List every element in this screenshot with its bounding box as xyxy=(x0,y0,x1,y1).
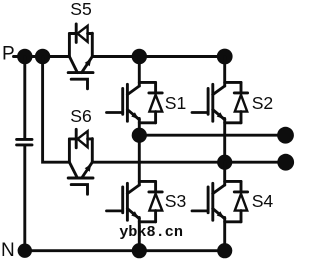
S6 diode loop right vertical xyxy=(91,139,94,163)
junction dot S1 collector xyxy=(132,49,147,64)
S2 diode bottom lead xyxy=(240,112,243,123)
S1 bottom wire from diode xyxy=(139,121,155,124)
S3 gate lead xyxy=(107,209,123,212)
S5 gate bar and lead xyxy=(71,79,87,89)
S6 emitter diagonal xyxy=(82,162,93,178)
wire upper output rail xyxy=(139,134,285,137)
S3 diode cathode bar xyxy=(149,190,162,193)
IGBT S2 xyxy=(192,57,248,163)
IGBT S6 xyxy=(68,129,93,194)
svg-text:S2: S2 xyxy=(252,93,274,113)
S2 top wire to diode xyxy=(225,81,241,84)
svg-text:S5: S5 xyxy=(70,0,92,19)
junction dot S3 emitter N xyxy=(132,243,147,258)
S5 diode loop left vertical xyxy=(68,34,71,57)
S1 diode cathode bar xyxy=(149,91,162,94)
wire S2 leg to S4 xyxy=(223,162,226,185)
S4 emitter diagonal xyxy=(213,209,225,219)
wire P bus: dot2 to S5 left xyxy=(43,55,70,58)
S4 top wire to diode xyxy=(225,180,241,183)
S1 gate bar xyxy=(121,89,124,115)
S6 diode loop left vertical xyxy=(68,139,71,162)
S6 diode triangle xyxy=(78,131,88,147)
S4 gate lead xyxy=(192,209,208,212)
IGBT S3 xyxy=(107,181,163,250)
wire C1 bottom lead xyxy=(23,146,26,251)
junction dot P-C1 xyxy=(17,49,32,64)
S4 emitter lead xyxy=(223,218,226,251)
junction dot P-S6 branch xyxy=(35,49,50,64)
S6 channel bar xyxy=(68,177,93,180)
terminal dot upper output xyxy=(277,127,294,144)
IGBT S5 xyxy=(68,24,93,89)
wire S1 leg to S3 xyxy=(138,135,141,185)
S2 gate lead xyxy=(192,111,208,114)
S3 gate bar xyxy=(121,187,124,213)
S2 gate bar xyxy=(207,89,210,115)
wire C1 top lead xyxy=(23,57,26,139)
S2 diode triangle xyxy=(235,95,247,112)
S3 channel bar xyxy=(126,183,129,220)
S6 collector diagonal xyxy=(69,162,77,178)
junction dot S2 collector xyxy=(217,49,233,65)
S2 collector lead xyxy=(223,57,226,87)
S1 collector lead xyxy=(138,57,141,87)
svg-text:S1: S1 xyxy=(165,93,187,113)
svg-text:S3: S3 xyxy=(165,191,187,211)
S2 diode top lead xyxy=(240,82,243,91)
terminal dot lower output xyxy=(277,154,294,171)
junction dot S1 emitter node xyxy=(132,128,147,143)
S5 channel bar xyxy=(68,71,93,74)
svg-text:S4: S4 xyxy=(252,191,274,211)
S4 collector diagonal xyxy=(213,185,225,194)
wire N bus xyxy=(25,249,225,252)
S6 gate bar and lead xyxy=(71,185,87,195)
S4 bottom wire from diode xyxy=(225,220,241,223)
svg-text:P: P xyxy=(2,43,15,64)
wire P bus: S5 right to S1 top node xyxy=(92,55,139,58)
S5 collector diagonal xyxy=(69,57,77,73)
S5 diode triangle xyxy=(78,26,88,42)
S3 diode triangle xyxy=(149,194,162,211)
S1 emitter arrow xyxy=(131,112,139,119)
S4 channel bar xyxy=(211,183,214,220)
S2 diode cathode bar xyxy=(234,91,247,94)
S1 collector diagonal xyxy=(127,86,139,95)
S4 diode top lead xyxy=(240,181,243,190)
capacitor C1 xyxy=(17,139,32,145)
junction dot S2 emitter node xyxy=(217,155,232,170)
IGBT S1 xyxy=(107,57,163,136)
S1 diode triangle xyxy=(149,95,162,112)
S3 diode bottom lead xyxy=(154,211,157,222)
junction dot N left xyxy=(18,244,32,258)
IGBT S4 xyxy=(192,181,248,250)
S4 diode bottom lead xyxy=(240,211,243,222)
S6 emitter arrow xyxy=(85,164,92,172)
S1 diode top lead xyxy=(154,82,157,91)
junction dot S4 emitter N xyxy=(217,243,232,258)
S5 emitter diagonal xyxy=(82,57,93,73)
svg-text:S6: S6 xyxy=(70,106,92,126)
S6 diode lead left xyxy=(69,137,76,140)
S3 emitter diagonal xyxy=(127,209,139,219)
S3 bottom wire from diode xyxy=(139,220,155,223)
S2 emitter arrow xyxy=(217,112,225,119)
wire P bus: P to dot1 xyxy=(14,55,25,58)
S1 gate lead xyxy=(107,111,123,114)
wire S6 branch vertical and to S6 left xyxy=(43,57,70,163)
wire P bus: dot1 to dot2 xyxy=(25,55,43,58)
S5 diode lead left xyxy=(69,32,76,35)
wire lower output rail: S6 right to terminal xyxy=(92,161,285,164)
S5 diode loop right vertical xyxy=(91,33,94,56)
S2 emitter diagonal xyxy=(213,110,225,120)
S2 emitter lead xyxy=(223,119,226,163)
S3 collector diagonal xyxy=(127,185,139,194)
S3 emitter lead xyxy=(138,218,141,251)
S6 diode cathode bar xyxy=(75,129,78,148)
S2 channel bar xyxy=(211,84,214,121)
svg-text:N: N xyxy=(1,240,15,261)
S1 channel bar xyxy=(126,84,129,121)
S5 diode lead right xyxy=(88,32,93,35)
S2 bottom wire from diode xyxy=(225,121,241,124)
S5 emitter arrow xyxy=(85,58,92,66)
S3 top wire to diode xyxy=(139,180,155,183)
S4 gate bar xyxy=(207,187,210,213)
S3 emitter arrow xyxy=(131,211,139,218)
S2 collector diagonal xyxy=(213,86,225,95)
S1 emitter lead xyxy=(138,119,141,136)
wire P bus: S1 top node to S2 top node xyxy=(139,55,224,58)
S5 diode cathode bar xyxy=(75,24,78,43)
svg-text:ybk8.cn: ybk8.cn xyxy=(119,223,183,241)
S1 emitter diagonal xyxy=(127,110,139,120)
S4 diode triangle xyxy=(235,194,247,211)
S6 diode lead right xyxy=(88,137,93,140)
S4 diode cathode bar xyxy=(234,190,247,193)
S4 emitter arrow xyxy=(217,211,225,218)
S3 diode top lead xyxy=(154,181,157,190)
S1 diode bottom lead xyxy=(154,112,157,123)
S1 top wire to diode xyxy=(139,81,155,84)
